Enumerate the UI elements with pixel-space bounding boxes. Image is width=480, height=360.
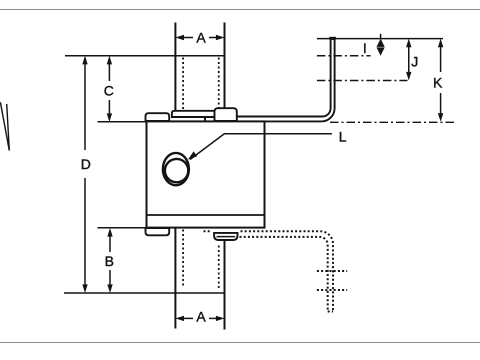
svg-text:J: J [411,54,418,70]
svg-text:K: K [433,75,443,91]
svg-text:L: L [339,129,347,145]
svg-text:A: A [196,308,206,324]
svg-text:A: A [196,30,206,46]
svg-text:I: I [363,40,367,56]
svg-text:C: C [104,83,114,99]
svg-text:D: D [81,156,91,172]
svg-text:B: B [105,253,114,269]
